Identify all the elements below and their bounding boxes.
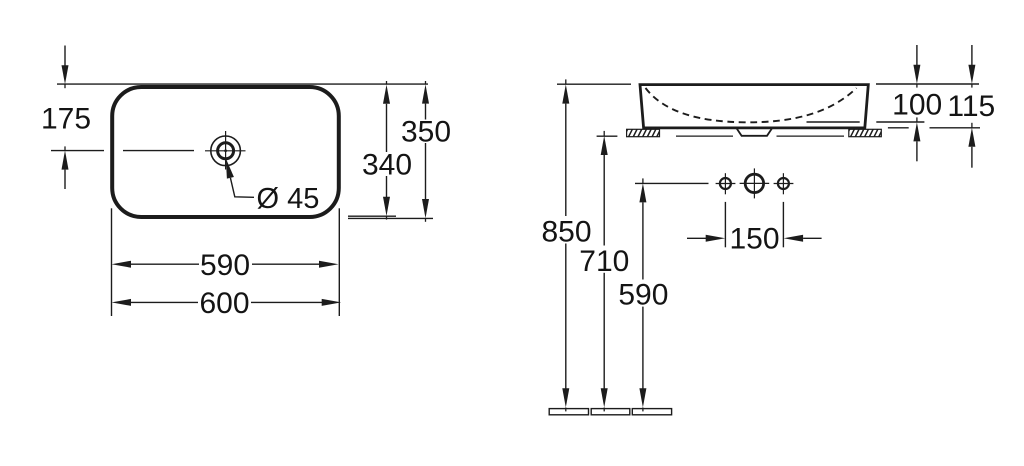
dim 340 label (362, 149, 412, 182)
ref line 100 inner segment (807, 121, 860, 123)
svg-text:590: 590 (200, 249, 250, 282)
arrow tip tick marks (65, 79, 972, 411)
ext line 150 left (724, 202, 726, 247)
ext line 150 right (782, 202, 784, 247)
ref line for 710 (597, 135, 618, 137)
dim 710 label (579, 245, 629, 278)
ref line 115 segment a (888, 127, 909, 129)
svg-text:350: 350 (401, 115, 451, 148)
dim 850 line (562, 84, 569, 407)
dim 100 label (892, 89, 942, 122)
faucet hole left (716, 173, 736, 194)
dim 590 height label (618, 279, 668, 312)
floor bar left (549, 409, 588, 415)
dim 150 label (729, 223, 779, 256)
label diameter 45 (257, 183, 320, 215)
top ref line left of side view (557, 83, 631, 85)
svg-text:Ø 45: Ø 45 (257, 183, 320, 215)
dim 600 arrows and line (112, 299, 342, 306)
dim 340 line and arrows (383, 85, 390, 216)
drain outer circle (211, 136, 241, 166)
counter underside line right segment (777, 135, 845, 137)
dim 115 top arrow (968, 45, 975, 84)
dim 590 height line (639, 183, 646, 407)
faucet centerline (635, 182, 709, 184)
ref line 100 outer segment (876, 121, 924, 123)
dim 150 left arrow (687, 235, 725, 242)
basin profile side view (640, 85, 868, 128)
svg-text:850: 850 (541, 216, 591, 249)
svg-text:600: 600 (199, 287, 249, 320)
dim 175 label (41, 103, 91, 136)
svg-text:150: 150 (729, 223, 779, 256)
faucet hole center (740, 168, 770, 198)
hatch left block (623, 128, 661, 139)
svg-text:590: 590 (618, 279, 668, 312)
bottom ref line 340 (348, 215, 396, 217)
dim 590 label (200, 249, 250, 282)
top extension line (57, 83, 428, 85)
dim 100 top arrow (913, 45, 920, 84)
centerline dash inside basin (123, 150, 194, 152)
dim 150 right arrow (784, 235, 822, 242)
leader arrow to drain (226, 158, 254, 197)
drain crosshair (205, 131, 246, 170)
dim 590 arrows and line (112, 261, 339, 268)
dim 175 bottom arrow (62, 150, 69, 189)
dim 175 top arrow (62, 46, 69, 85)
svg-text:710: 710 (579, 245, 629, 278)
dim 115 label (947, 90, 995, 123)
svg-text:340: 340 (362, 149, 412, 182)
svg-text:115: 115 (947, 90, 995, 123)
floor bar middle (591, 409, 630, 415)
ref line 115 segment b (930, 127, 981, 129)
hatch right block (845, 128, 883, 139)
center extension line left (51, 150, 104, 152)
faucet hole right (774, 173, 794, 194)
counter underside line left segment (676, 135, 733, 137)
top ref line right of side view (876, 83, 979, 85)
extension line bottom right (338, 208, 340, 316)
bottom ref line 350 (348, 217, 433, 219)
dim 100 bottom arrow (913, 122, 920, 161)
dim 710 line (601, 136, 608, 408)
drain inner circle (218, 143, 234, 159)
basin outline plan view (112, 87, 339, 217)
svg-text:175: 175 (41, 103, 91, 136)
extension line bottom left (111, 208, 113, 316)
drain boss (737, 129, 772, 136)
floor bar right (632, 409, 671, 415)
bowl curve dashed (646, 88, 857, 122)
dim 850 label (541, 216, 591, 249)
svg-text:100: 100 (892, 89, 942, 122)
dim 115 bottom arrow (968, 128, 975, 168)
dim 350 label (401, 115, 451, 148)
dim 350 line and arrows (422, 84, 429, 218)
dim 600 label (199, 287, 249, 320)
